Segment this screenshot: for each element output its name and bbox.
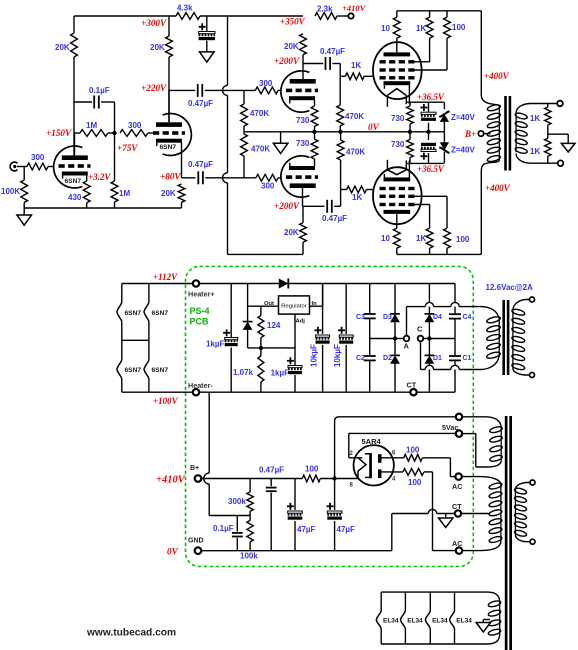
svg-text:+100V: +100V bbox=[153, 396, 179, 406]
svg-text:Heater+: Heater+ bbox=[188, 290, 215, 299]
svg-text:6SN7: 6SN7 bbox=[65, 178, 82, 185]
svg-text:47µF: 47µF bbox=[337, 525, 356, 534]
svg-text:730: 730 bbox=[391, 140, 405, 149]
svg-text:C2: C2 bbox=[356, 355, 365, 362]
svg-text:470K: 470K bbox=[250, 109, 269, 118]
svg-text:6SN7: 6SN7 bbox=[152, 367, 169, 374]
svg-text:+220V: +220V bbox=[141, 83, 167, 93]
svg-text:CT: CT bbox=[407, 381, 417, 390]
svg-text:+150V: +150V bbox=[46, 128, 72, 138]
svg-text:+400V: +400V bbox=[484, 71, 510, 81]
svg-text:730: 730 bbox=[391, 114, 405, 123]
svg-text:C3: C3 bbox=[356, 314, 365, 321]
svg-text:124: 124 bbox=[267, 321, 281, 330]
svg-text:1M: 1M bbox=[86, 121, 97, 130]
svg-text:300: 300 bbox=[261, 182, 275, 191]
svg-text:1M: 1M bbox=[119, 189, 130, 198]
svg-text:Out: Out bbox=[264, 301, 274, 307]
svg-text:D3: D3 bbox=[383, 314, 392, 321]
svg-text:0V: 0V bbox=[368, 122, 380, 132]
svg-text:1K: 1K bbox=[416, 234, 426, 243]
svg-text:47µF: 47µF bbox=[297, 525, 316, 534]
svg-text:PCB: PCB bbox=[190, 317, 210, 327]
svg-text:GND: GND bbox=[188, 538, 204, 545]
svg-text:EL34: EL34 bbox=[407, 618, 423, 625]
svg-text:1kµF: 1kµF bbox=[271, 369, 290, 378]
svg-text:0.47µF: 0.47µF bbox=[188, 160, 213, 169]
svg-text:730: 730 bbox=[296, 116, 310, 125]
svg-text:+3.2V: +3.2V bbox=[88, 172, 111, 182]
svg-text:Heater-: Heater- bbox=[188, 381, 213, 390]
svg-text:+410V: +410V bbox=[156, 475, 186, 486]
svg-text:300: 300 bbox=[259, 79, 273, 88]
svg-text:AC: AC bbox=[452, 539, 462, 548]
svg-text:100k: 100k bbox=[240, 552, 258, 561]
svg-text:+112V: +112V bbox=[153, 272, 178, 282]
svg-text:Regulator: Regulator bbox=[281, 303, 307, 309]
svg-text:4.3k: 4.3k bbox=[177, 4, 193, 13]
svg-text:300k: 300k bbox=[228, 497, 246, 506]
svg-text:100: 100 bbox=[456, 235, 470, 244]
svg-text:0.47µF: 0.47µF bbox=[188, 99, 213, 108]
svg-text:B+: B+ bbox=[464, 129, 476, 139]
svg-text:1K: 1K bbox=[352, 193, 362, 202]
svg-text:0.1µF: 0.1µF bbox=[89, 86, 110, 95]
svg-text:5AR4: 5AR4 bbox=[362, 437, 382, 446]
svg-text:100: 100 bbox=[305, 465, 319, 474]
svg-text:0.47µF: 0.47µF bbox=[322, 214, 347, 223]
svg-text:6SN7: 6SN7 bbox=[160, 144, 177, 151]
svg-text:0.1µF: 0.1µF bbox=[213, 524, 234, 533]
svg-text:Z=40V: Z=40V bbox=[451, 146, 475, 155]
svg-text:1K: 1K bbox=[416, 24, 426, 33]
svg-text:EL34: EL34 bbox=[432, 618, 448, 625]
svg-text:730: 730 bbox=[296, 139, 310, 148]
svg-text:20K: 20K bbox=[150, 43, 165, 52]
svg-text:10: 10 bbox=[381, 24, 390, 33]
svg-text:CT: CT bbox=[452, 502, 462, 511]
svg-text:+200V: +200V bbox=[274, 56, 300, 66]
svg-text:6SN7: 6SN7 bbox=[125, 367, 142, 374]
svg-text:+350V: +350V bbox=[280, 17, 306, 27]
svg-text:+75V: +75V bbox=[117, 143, 138, 153]
svg-text:D1: D1 bbox=[433, 355, 442, 362]
svg-text:+410V: +410V bbox=[342, 3, 367, 13]
svg-text:+200V: +200V bbox=[274, 201, 300, 211]
svg-text:0V: 0V bbox=[167, 547, 179, 557]
svg-text:300: 300 bbox=[31, 153, 45, 162]
svg-text:EL34: EL34 bbox=[456, 618, 472, 625]
svg-text:20K: 20K bbox=[284, 42, 299, 51]
svg-text:PS-4: PS-4 bbox=[190, 306, 210, 316]
svg-text:1K: 1K bbox=[530, 114, 540, 123]
svg-text:C4: C4 bbox=[463, 314, 472, 321]
svg-text:470K: 470K bbox=[345, 112, 364, 121]
svg-text:D4: D4 bbox=[433, 314, 442, 321]
svg-text:Adj: Adj bbox=[296, 319, 306, 325]
svg-text:B+: B+ bbox=[190, 465, 199, 472]
svg-text:+36.5V: +36.5V bbox=[417, 92, 445, 102]
svg-text:+400V: +400V bbox=[485, 183, 511, 193]
svg-text:100: 100 bbox=[406, 446, 420, 455]
svg-text:AC: AC bbox=[452, 482, 462, 491]
svg-text:1K: 1K bbox=[530, 147, 540, 156]
svg-text:A: A bbox=[404, 342, 410, 351]
svg-text:10kµF: 10kµF bbox=[333, 344, 342, 367]
svg-text:100: 100 bbox=[452, 23, 466, 32]
svg-text:1kµF: 1kµF bbox=[206, 340, 225, 349]
svg-text:2.3k: 2.3k bbox=[317, 5, 333, 14]
svg-text:300: 300 bbox=[128, 121, 142, 130]
svg-text:5Vac: 5Vac bbox=[442, 423, 458, 432]
svg-text:+36.5V: +36.5V bbox=[417, 164, 445, 174]
svg-text:www.tubecad.com: www.tubecad.com bbox=[86, 628, 176, 639]
svg-text:6SN7: 6SN7 bbox=[152, 310, 169, 317]
svg-text:470K: 470K bbox=[251, 145, 270, 154]
svg-text:6SN7: 6SN7 bbox=[125, 310, 142, 317]
svg-text:20K: 20K bbox=[284, 228, 299, 237]
svg-text:10: 10 bbox=[381, 234, 390, 243]
svg-text:430: 430 bbox=[68, 193, 82, 202]
svg-text:10kµF: 10kµF bbox=[310, 344, 319, 367]
svg-text:100K: 100K bbox=[1, 187, 20, 196]
svg-text:20K: 20K bbox=[55, 43, 70, 52]
svg-text:1K: 1K bbox=[351, 61, 361, 70]
svg-text:12.6Vac@2A: 12.6Vac@2A bbox=[486, 283, 534, 292]
svg-text:470K: 470K bbox=[346, 148, 365, 157]
svg-text:+300V: +300V bbox=[141, 18, 167, 28]
svg-text:0.47µF: 0.47µF bbox=[320, 47, 345, 56]
svg-text:C: C bbox=[417, 325, 423, 334]
svg-text:100: 100 bbox=[408, 478, 422, 487]
svg-text:D2: D2 bbox=[383, 355, 392, 362]
svg-text:Z=40V: Z=40V bbox=[451, 113, 475, 122]
svg-text:0.47µF: 0.47µF bbox=[259, 466, 284, 475]
svg-text:C1: C1 bbox=[463, 355, 472, 362]
svg-text:EL34: EL34 bbox=[383, 618, 399, 625]
svg-text:20K: 20K bbox=[161, 189, 176, 198]
svg-text:+80V: +80V bbox=[160, 172, 181, 182]
svg-text:1.07k: 1.07k bbox=[233, 368, 254, 377]
